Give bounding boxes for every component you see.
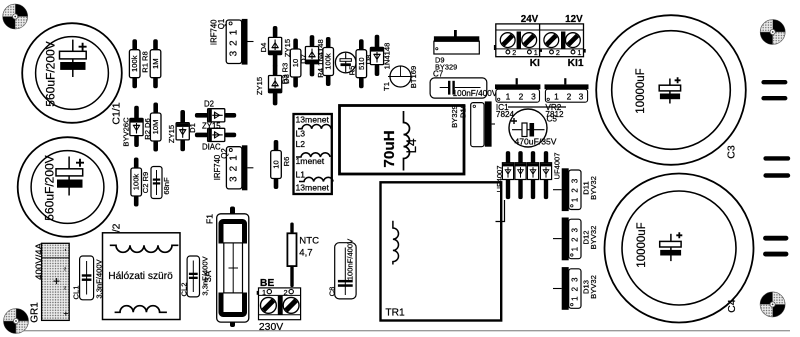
svg-text:3 2 1: 3 2 1 <box>228 29 239 57</box>
svg-text:KI1: KI1 <box>568 58 584 69</box>
svg-text:T1: T1 <box>382 82 391 91</box>
svg-text:100k: 100k <box>324 53 333 70</box>
svg-text:D1: D1 <box>188 123 197 133</box>
svg-text:CL2: CL2 <box>179 283 188 297</box>
svg-text:1 2 3: 1 2 3 <box>570 226 579 251</box>
svg-text:10000uF: 10000uF <box>636 222 648 267</box>
svg-text:C8: C8 <box>327 287 336 297</box>
svg-text:TR1: TR1 <box>385 308 405 319</box>
svg-text:UF4007: UF4007 <box>495 165 504 192</box>
svg-text:10M: 10M <box>151 120 160 135</box>
svg-text:R5: R5 <box>348 66 357 76</box>
svg-text:1: 1 <box>577 48 581 57</box>
svg-text:2: 2 <box>512 48 516 57</box>
svg-text:1M: 1M <box>151 58 160 69</box>
svg-text:CL1: CL1 <box>72 286 81 300</box>
svg-text:70uH: 70uH <box>381 130 398 167</box>
svg-text:GR1: GR1 <box>30 302 41 323</box>
svg-text:BYV32: BYV32 <box>589 275 598 299</box>
svg-text:1 2 3: 1 2 3 <box>570 276 579 301</box>
svg-text:560uF/200V: 560uF/200V <box>44 41 58 106</box>
svg-text:Hálózati szürö: Hálózati szürö <box>108 271 173 282</box>
svg-text:1 2 3: 1 2 3 <box>570 177 579 202</box>
svg-text:100nF/400V: 100nF/400V <box>453 89 498 98</box>
svg-text:C3: C3 <box>726 145 738 159</box>
svg-text:R6: R6 <box>282 157 291 167</box>
svg-text:D10: D10 <box>459 104 468 118</box>
svg-text:+: + <box>62 311 71 316</box>
svg-text:Q2: Q2 <box>220 148 229 158</box>
svg-text:3A: 3A <box>202 270 213 282</box>
svg-text:D2: D2 <box>204 100 214 109</box>
svg-text:2: 2 <box>519 92 524 102</box>
svg-text:L2: L2 <box>296 139 306 149</box>
svg-text:400V/4A: 400V/4A <box>34 242 45 279</box>
svg-text:ZY15: ZY15 <box>255 77 264 95</box>
svg-text:2: 2 <box>284 288 288 297</box>
svg-text:10000uF: 10000uF <box>635 68 647 113</box>
svg-text:2: 2 <box>567 92 572 102</box>
svg-text:13menet: 13menet <box>296 183 330 193</box>
svg-text:C2 R9: C2 R9 <box>141 172 150 194</box>
svg-text:1menet: 1menet <box>296 156 325 166</box>
svg-text:L3: L3 <box>296 129 306 139</box>
svg-text:KI: KI <box>530 58 540 69</box>
svg-text:230V: 230V <box>259 322 283 333</box>
svg-text:D4: D4 <box>259 43 268 53</box>
svg-text:ZY15: ZY15 <box>167 125 176 143</box>
svg-text:470uF/35V: 470uF/35V <box>514 137 556 147</box>
svg-text:L4: L4 <box>404 138 419 154</box>
svg-text:~: ~ <box>62 267 69 271</box>
svg-text:F1: F1 <box>205 214 215 224</box>
svg-text:13menet: 13menet <box>296 115 330 125</box>
svg-text:UF4007: UF4007 <box>552 152 561 179</box>
svg-text:1: 1 <box>534 48 538 57</box>
svg-text:3 2 1: 3 2 1 <box>228 154 239 182</box>
svg-text:BYV26C: BYV26C <box>122 117 131 147</box>
svg-text:1: 1 <box>262 288 266 297</box>
svg-text:4,7: 4,7 <box>299 248 312 259</box>
svg-text:L1: L1 <box>296 170 306 180</box>
svg-text:DIAC: DIAC <box>202 143 221 152</box>
svg-text:C5: C5 <box>547 115 558 124</box>
svg-text:D7: D7 <box>299 54 308 64</box>
svg-text:3: 3 <box>531 92 536 102</box>
svg-text:100nF/400V: 100nF/400V <box>346 238 355 280</box>
svg-text:NTC: NTC <box>299 236 319 247</box>
svg-text:~: ~ <box>62 286 69 290</box>
svg-text:Q1: Q1 <box>217 19 226 29</box>
svg-text:100k: 100k <box>130 55 139 72</box>
svg-text:560uF/200V: 560uF/200V <box>43 155 57 220</box>
svg-text:C7: C7 <box>433 70 444 79</box>
svg-text:BT169: BT169 <box>409 66 418 88</box>
svg-text:10: 10 <box>272 160 281 168</box>
svg-text:+: + <box>53 274 60 288</box>
svg-text:100k: 100k <box>132 174 141 191</box>
svg-text:BYV32: BYV32 <box>589 176 598 200</box>
svg-text:C4: C4 <box>726 299 738 313</box>
svg-text:1: 1 <box>506 92 511 102</box>
svg-text:D3 R3: D3 R3 <box>281 63 290 85</box>
svg-text:1N4148: 1N4148 <box>383 43 392 70</box>
svg-text:R1 R8: R1 R8 <box>141 51 150 73</box>
svg-text:3: 3 <box>579 92 584 102</box>
svg-text:68nF: 68nF <box>162 177 171 195</box>
svg-text:1: 1 <box>554 92 559 102</box>
svg-text:2: 2 <box>556 48 560 57</box>
svg-text:BYV32: BYV32 <box>589 226 598 250</box>
